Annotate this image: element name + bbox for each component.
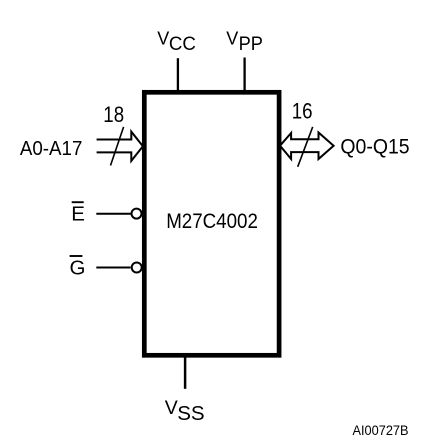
bus width slash 16 (298, 127, 313, 167)
svg-text:A0-A17: A0-A17 (20, 137, 83, 160)
svg-text:Q0-Q15: Q0-Q15 (340, 135, 409, 158)
svg-text:V: V (157, 29, 169, 49)
svg-text:V: V (165, 397, 178, 419)
svg-text:18: 18 (103, 102, 124, 127)
inversion bubble on E (132, 209, 142, 219)
wire VSS ground lead (184, 355, 187, 389)
overline of G (70, 255, 83, 257)
bus width slash 18 (111, 127, 124, 166)
svg-text:AI00727B: AI00727B (353, 422, 409, 438)
svg-text:E: E (71, 203, 85, 226)
svg-text:SS: SS (177, 402, 204, 425)
overline of E (72, 201, 84, 203)
wire VPP supply lead (243, 58, 245, 93)
svg-text:G: G (70, 257, 86, 280)
svg-text:M27C4002: M27C4002 (166, 210, 258, 233)
wire E input (96, 213, 130, 215)
svg-text:16: 16 (292, 98, 313, 123)
inversion bubble on G (132, 263, 142, 273)
IC body U1 M27C4002 (144, 92, 279, 355)
bus arrow A0-A17 input (97, 132, 143, 161)
svg-text:V: V (226, 29, 238, 49)
bus arrow Q0-Q15 bidirectional (280, 133, 334, 160)
wire VCC supply lead (177, 58, 179, 92)
svg-text:PP: PP (239, 33, 263, 55)
wire G input (96, 267, 130, 269)
svg-text:CC: CC (169, 33, 196, 55)
